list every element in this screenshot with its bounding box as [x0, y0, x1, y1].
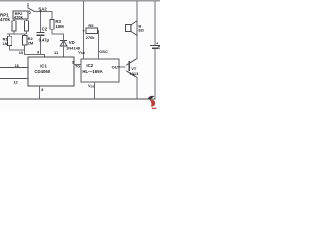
wire: R1 bottom to junction [9, 46, 11, 51]
svg-text:2M: 2M [28, 40, 34, 45]
wire: tie to R2 top [24, 34, 26, 36]
capacitor C2 top wire [40, 11, 42, 32]
speaker BL top wire [136, 1, 138, 21]
wire: box bottom to RP2 body [25, 19, 27, 21]
resistor R3 body [50, 20, 54, 30]
svg-text:TG: TG [75, 65, 80, 69]
svg-text:HL—169A: HL—169A [82, 69, 102, 74]
wire: RP1 bottom to tie [13, 31, 15, 34]
svg-text:9013: 9013 [129, 71, 139, 76]
watermark logo red part [150, 100, 155, 107]
capacitor C2 bottom wire to pin 9 [40, 35, 42, 54]
junction dot R5/VDD [83, 30, 85, 32]
diode VD 1N4148 triangle [60, 41, 67, 47]
battery bottom wire [154, 49, 156, 99]
resistor RP1 body [12, 21, 16, 31]
svg-text:VD: VD [69, 40, 75, 45]
potentiometer label box RP2 470k [13, 11, 28, 19]
background [0, 0, 160, 110]
watermark logo dark part [148, 96, 155, 100]
resistor R5 body [86, 28, 98, 33]
battery GB top wire [154, 1, 156, 45]
junction dot C2/switch wire [40, 10, 42, 12]
svg-text:VDD: VDD [78, 51, 86, 56]
switch SA2 lever [28, 8, 34, 11]
IC1 pin8 wire to ground rail [39, 86, 41, 99]
ground rail bottom [0, 98, 156, 100]
VDD rail wire from top [83, 1, 85, 59]
svg-text:CD4060: CD4060 [34, 69, 50, 74]
resistor R1 body [8, 36, 12, 45]
battery short plate [152, 47, 158, 49]
wire: RP2 bottom to tie [25, 31, 27, 34]
svg-text:OSC: OSC [99, 49, 108, 54]
wire: R5 right lead to OSC pin [97, 31, 98, 59]
wire: tie to R1 top [9, 34, 11, 36]
wire: switch pivot to R3 top [34, 11, 52, 19]
svg-text:IC2: IC2 [86, 63, 93, 68]
tie wire junction row [7, 33, 26, 35]
svg-text:10M: 10M [55, 24, 64, 29]
svg-text:G: G [158, 45, 160, 50]
speaker cone [131, 21, 137, 36]
svg-text:1M: 1M [3, 41, 9, 46]
svg-text:0.47μ: 0.47μ [39, 37, 50, 42]
IC2 Vss wire to ground [94, 82, 96, 99]
IC1 pin12 wire [0, 78, 28, 80]
svg-text:R5: R5 [88, 23, 94, 28]
transistor VT 9013 base bar [128, 61, 130, 71]
switch SA2 contact 2 terminal [29, 11, 30, 12]
wire: R2 bottom to junction [24, 45, 26, 50]
speaker body box [125, 25, 130, 32]
svg-text:470k: 470k [14, 15, 24, 20]
svg-text:270k: 270k [86, 35, 96, 40]
svg-text:8Ω: 8Ω [138, 28, 144, 33]
diode VD 1N4148 cathode bar [60, 39, 67, 41]
IC1 pin16 wire [0, 67, 28, 69]
svg-text:OUT: OUT [112, 65, 121, 70]
svg-text:VSS: VSS [88, 84, 95, 89]
svg-text:470k: 470k [0, 17, 11, 22]
wire: IC1 pin3 to IC2 TG [74, 63, 81, 65]
transistor collector [126, 58, 137, 65]
top cropped supply rail (grey band) [0, 0, 160, 2]
capacitor C2 plates [37, 31, 45, 33]
svg-text:10: 10 [19, 50, 23, 55]
resistor RP2 body [24, 21, 28, 31]
switch SA2 contact 1 stub [27, 6, 29, 9]
watermark tiny text [152, 108, 157, 109]
wire: R3 bottom to diode [52, 29, 64, 40]
wire: diode to IC1 pin 11 [63, 40, 65, 57]
transistor emitter with arrow [126, 71, 137, 78]
IC1 box CD4060 [28, 57, 74, 86]
wire: box bottom to RP1 body [13, 19, 15, 21]
IC2 box HL-169A [81, 59, 119, 82]
svg-text:SA2: SA2 [38, 7, 47, 12]
battery long plate [150, 45, 160, 47]
resistor R2 body [23, 36, 27, 46]
svg-text:C2: C2 [42, 27, 48, 32]
wire: IC2 OUT to transistor base [119, 66, 125, 68]
wire: bottom junction row pin10 net [10, 50, 45, 57]
